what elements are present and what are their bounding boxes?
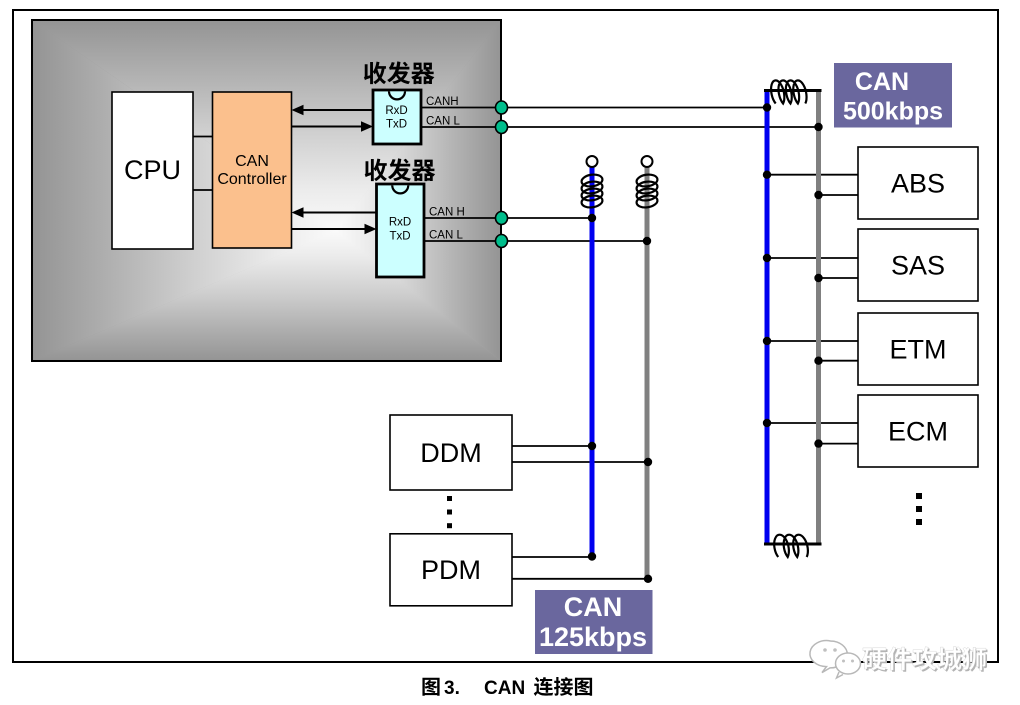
svg-text:CAN L: CAN L [429,230,463,242]
svg-text:CAN L: CAN L [426,116,460,128]
svg-text:TxD: TxD [389,231,410,243]
svg-text:CANH: CANH [426,96,459,108]
svg-text:SAS: SAS [891,251,945,281]
svg-text:Controller: Controller [217,171,287,188]
svg-text:PDM: PDM [421,555,481,585]
svg-text:CAN: CAN [564,592,623,622]
svg-text:ETM: ETM [890,335,947,365]
svg-text:ECM: ECM [888,417,948,447]
svg-text:CAN H: CAN H [429,207,465,219]
svg-text:CAN: CAN [235,153,269,170]
svg-text:CAN: CAN [855,68,909,96]
svg-text:TxD: TxD [386,119,407,131]
svg-text:DDM: DDM [420,438,482,468]
svg-text:125kbps: 125kbps [539,622,647,652]
svg-text:3.: 3. [444,678,460,699]
svg-text:CAN: CAN [484,678,525,699]
svg-text:RxD: RxD [389,217,411,229]
svg-text:RxD: RxD [385,105,407,117]
svg-text:500kbps: 500kbps [843,98,943,126]
svg-text:ABS: ABS [891,169,945,199]
svg-text:CPU: CPU [124,155,181,185]
